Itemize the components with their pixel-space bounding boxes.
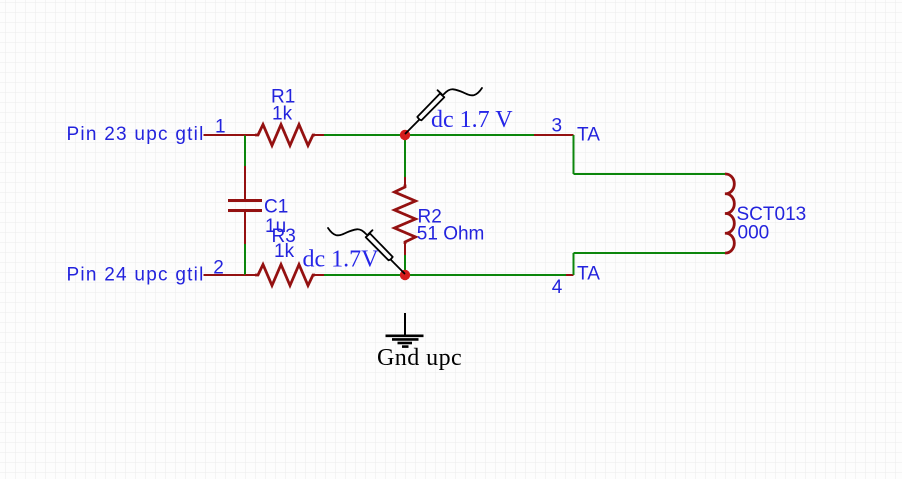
- wire (vertical, node1 to C1 top): [244, 135, 246, 167]
- wire (to coil top): [574, 173, 726, 175]
- svg-text:dc 1.7V: dc 1.7V: [303, 247, 380, 273]
- capacitor C1: [228, 166, 262, 244]
- svg-text:Pin 23 upc gtil: Pin 23 upc gtil: [67, 124, 205, 145]
- pin 1 lead of port Pin 23: [204, 134, 246, 136]
- inductor SCT013-000 (current transformer coil): [725, 174, 734, 253]
- pin 4 lead of connector TA: [566, 274, 574, 276]
- probe 2 (voltage probe at node B): [328, 228, 405, 274]
- junction node B: [400, 270, 410, 280]
- ground Gnd upc: [386, 313, 424, 347]
- wire (node A down to R2): [404, 135, 406, 177]
- pin 2 lead of port Pin 24: [204, 274, 246, 276]
- wire (bottom, R3 to node B): [324, 274, 405, 276]
- wire (top, R1 to node A): [324, 134, 405, 136]
- svg-text:51 Ohm: 51 Ohm: [417, 224, 485, 245]
- svg-text:TA: TA: [577, 264, 600, 285]
- resistor R1: [245, 125, 325, 146]
- wire (top, node A to pin3): [405, 134, 535, 136]
- svg-text:2: 2: [213, 258, 224, 279]
- junction node A: [400, 130, 410, 140]
- wire (bottom, node B to pin4): [405, 274, 566, 276]
- wire (pin3 down): [573, 135, 575, 174]
- svg-text:000: 000: [738, 223, 770, 244]
- svg-text:dc 1.7 V: dc 1.7 V: [431, 107, 513, 133]
- svg-text:Gnd upc: Gnd upc: [377, 345, 462, 371]
- svg-text:4: 4: [552, 277, 563, 298]
- svg-text:3: 3: [552, 116, 563, 137]
- wire (coil bottom back): [574, 252, 726, 254]
- wire (vertical, C1 bottom to node2): [244, 243, 246, 275]
- probe 1 (voltage probe at node A): [406, 88, 483, 134]
- wire (R2 down to node B): [404, 255, 406, 275]
- svg-text:1: 1: [215, 117, 226, 138]
- wire (down to pin4): [573, 253, 575, 275]
- svg-text:Pin 24 upc gtil: Pin 24 upc gtil: [67, 265, 205, 286]
- resistor R2: [395, 176, 416, 256]
- svg-text:1k: 1k: [274, 241, 295, 262]
- svg-text:C1: C1: [264, 197, 288, 218]
- svg-text:TA: TA: [577, 125, 600, 146]
- pin 3 lead of connector TA: [534, 134, 574, 136]
- svg-text:1k: 1k: [272, 104, 293, 125]
- resistor R3: [245, 265, 325, 286]
